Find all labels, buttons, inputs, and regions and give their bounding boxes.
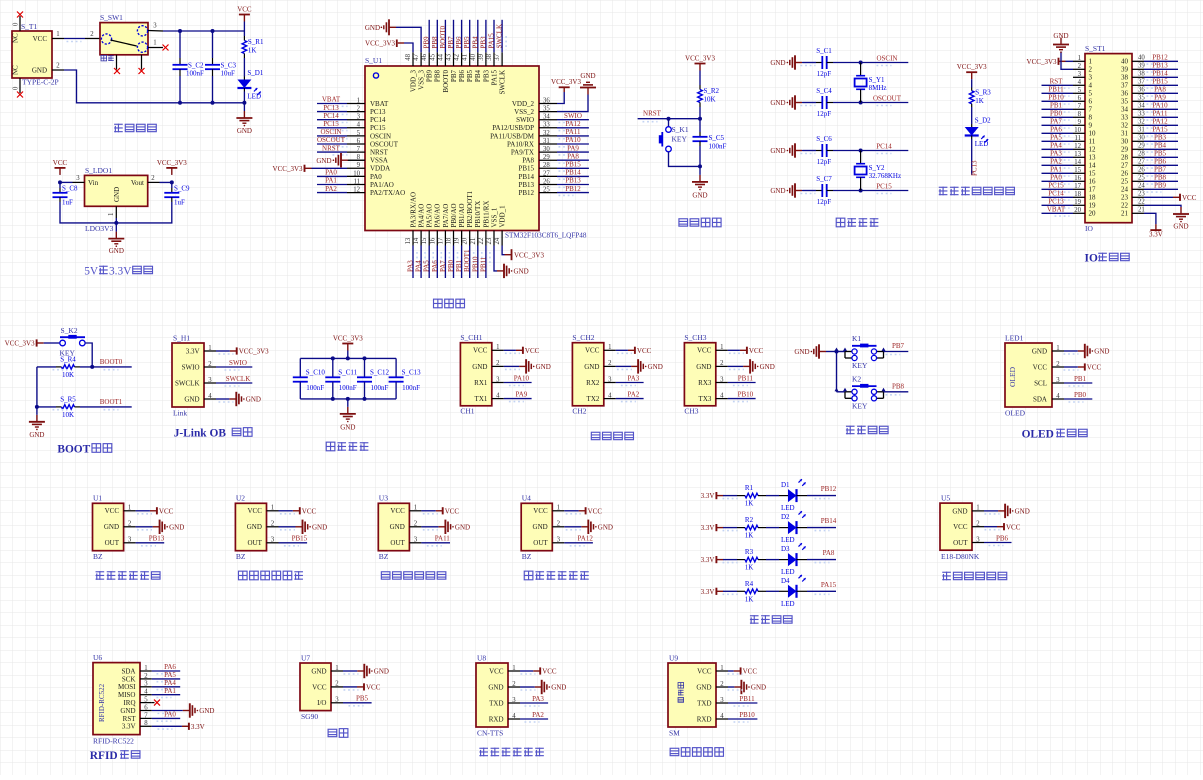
svg-text:NRST: NRST: [370, 149, 389, 157]
svg-text:4: 4: [1078, 79, 1082, 86]
svg-text:PB6: PB6: [996, 534, 1009, 542]
svg-text:2: 2: [335, 681, 339, 688]
svg-text:12: 12: [1074, 143, 1081, 150]
svg-text:PB1/AO: PB1/AO: [458, 203, 466, 227]
svg-text:PB15: PB15: [518, 165, 534, 173]
svg-text:2: 2: [976, 521, 980, 528]
svg-text:PB14: PB14: [821, 517, 837, 525]
svg-text:PA9: PA9: [515, 390, 527, 398]
svg-text:31: 31: [543, 138, 550, 145]
svg-text:36: 36: [1121, 90, 1129, 98]
svg-text:OUT: OUT: [105, 539, 120, 547]
svg-text:PA2: PA2: [325, 185, 337, 193]
svg-text:OSCIN: OSCIN: [320, 128, 341, 136]
svg-text:GND: GND: [29, 431, 44, 439]
svg-text:SDA: SDA: [121, 667, 135, 675]
svg-text:4: 4: [144, 689, 148, 696]
svg-text:PB14: PB14: [518, 173, 534, 181]
svg-text:29: 29: [543, 154, 550, 161]
svg-text:PA6: PA6: [164, 663, 176, 671]
svg-text:OUT: OUT: [533, 539, 548, 547]
svg-text:VCC_3V3: VCC_3V3: [333, 335, 363, 343]
svg-text:GND: GND: [1094, 348, 1109, 356]
svg-text:PA1: PA1: [1050, 166, 1062, 174]
svg-text:TX2: TX2: [587, 395, 600, 403]
svg-text:16: 16: [1089, 178, 1097, 186]
svg-text:4: 4: [496, 392, 500, 399]
svg-text:GND: GND: [1032, 347, 1047, 355]
svg-text:GND: GND: [648, 363, 663, 371]
svg-text:PB11: PB11: [479, 256, 487, 272]
svg-text:S_Y2: S_Y2: [869, 164, 885, 172]
svg-text:S_C1: S_C1: [816, 47, 832, 55]
svg-text:VCC: VCC: [743, 668, 758, 676]
svg-text:VCC_3V3: VCC_3V3: [685, 55, 715, 63]
svg-text:3: 3: [1089, 74, 1093, 82]
svg-text:38: 38: [486, 53, 493, 60]
svg-text:NRST: NRST: [322, 144, 341, 152]
svg-text:6: 6: [1078, 95, 1082, 102]
svg-text:1uF: 1uF: [174, 199, 185, 207]
svg-text:VCC: VCC: [637, 347, 652, 355]
svg-text:7: 7: [1078, 103, 1082, 110]
svg-text:5V: 5V: [84, 266, 99, 278]
svg-text:2: 2: [56, 63, 60, 70]
svg-text:PB13: PB13: [518, 181, 534, 189]
svg-text:PC15: PC15: [323, 120, 339, 128]
svg-text:GND: GND: [598, 523, 613, 531]
svg-text:34: 34: [1121, 106, 1129, 114]
svg-text:PB9: PB9: [423, 36, 431, 49]
svg-text:PA0: PA0: [370, 173, 382, 181]
svg-text:PA5/AO: PA5/AO: [426, 204, 434, 228]
svg-text:100nF: 100nF: [186, 70, 204, 78]
svg-text:D1: D1: [781, 481, 790, 489]
svg-text:GND: GND: [316, 157, 331, 165]
svg-text:S_C4: S_C4: [816, 87, 832, 95]
svg-text:20: 20: [462, 237, 469, 244]
svg-text:PB15: PB15: [565, 161, 581, 169]
svg-text:PB4: PB4: [474, 70, 482, 83]
svg-text:PA3: PA3: [407, 260, 415, 272]
svg-text:0: 0: [13, 86, 20, 90]
svg-text:12: 12: [1089, 146, 1097, 154]
svg-text:GND: GND: [580, 72, 595, 80]
svg-text:PA12: PA12: [578, 535, 594, 543]
svg-text:PA11: PA11: [435, 535, 451, 543]
svg-text:2: 2: [496, 360, 500, 367]
svg-text:PA0: PA0: [1050, 174, 1062, 182]
svg-text:VCC_3V3: VCC_3V3: [551, 78, 581, 86]
svg-text:PB1: PB1: [1074, 375, 1087, 383]
svg-text:GND: GND: [536, 363, 551, 371]
svg-text:LED: LED: [247, 93, 261, 101]
svg-text:PA6: PA6: [1050, 126, 1062, 134]
svg-text:1: 1: [56, 31, 59, 38]
svg-text:PA6/AO: PA6/AO: [434, 204, 442, 228]
svg-text:47: 47: [413, 53, 420, 60]
svg-text:25: 25: [543, 187, 550, 194]
svg-text:16: 16: [429, 237, 436, 244]
svg-text:LDO3V3: LDO3V3: [85, 224, 114, 233]
svg-text:22: 22: [1121, 202, 1129, 210]
svg-text:37: 37: [494, 53, 501, 60]
svg-text:11: 11: [353, 178, 360, 185]
svg-text:100nF: 100nF: [306, 384, 324, 392]
svg-text:OUT: OUT: [953, 539, 968, 547]
svg-text:PB8: PB8: [434, 70, 442, 83]
svg-text:8: 8: [1078, 111, 1082, 118]
svg-text:R4: R4: [745, 580, 754, 588]
svg-text:SWIO: SWIO: [516, 116, 534, 124]
svg-text:PA12: PA12: [1152, 118, 1168, 126]
svg-text:I/O: I/O: [317, 699, 326, 707]
svg-text:PB10: PB10: [471, 256, 479, 272]
svg-text:PA8: PA8: [1154, 86, 1166, 94]
svg-text:32: 32: [543, 130, 550, 137]
svg-text:9: 9: [1089, 122, 1093, 130]
svg-text:S_U1: S_U1: [365, 56, 382, 65]
svg-text:S_CH3: S_CH3: [684, 333, 706, 342]
svg-text:PB7: PB7: [450, 70, 458, 83]
svg-text:38: 38: [1121, 74, 1129, 82]
svg-text:PA11/USB/DM: PA11/USB/DM: [490, 132, 535, 140]
svg-text:10uF: 10uF: [221, 70, 236, 78]
svg-text:1K: 1K: [975, 97, 984, 105]
svg-text:GND: GND: [455, 523, 470, 531]
svg-text:K1: K1: [852, 334, 861, 343]
svg-text:GND: GND: [365, 24, 380, 32]
svg-text:VCC: VCC: [585, 347, 600, 355]
svg-text:2: 2: [512, 681, 516, 688]
svg-text:BZ: BZ: [93, 552, 103, 561]
svg-text:PA7/AO: PA7/AO: [442, 204, 450, 228]
svg-text:GND: GND: [390, 523, 405, 531]
svg-text:12pF: 12pF: [817, 70, 832, 78]
svg-text:10: 10: [1074, 127, 1081, 134]
svg-text:PB12: PB12: [518, 189, 534, 197]
svg-text:R3: R3: [745, 548, 754, 556]
svg-text:18: 18: [1089, 194, 1097, 202]
svg-text:VDD_1: VDD_1: [499, 205, 507, 228]
svg-text:GND: GND: [770, 59, 785, 67]
svg-text:S_ST1: S_ST1: [1085, 44, 1106, 53]
svg-text:36: 36: [543, 97, 550, 104]
svg-text:PA11: PA11: [1152, 110, 1168, 118]
svg-text:RX2: RX2: [586, 379, 600, 387]
svg-text:VBAT: VBAT: [322, 96, 341, 104]
svg-text:1: 1: [144, 665, 147, 672]
svg-text:PA15: PA15: [821, 581, 837, 589]
svg-text:GND: GND: [952, 507, 967, 515]
svg-text:RXD: RXD: [697, 715, 712, 723]
svg-text:PB11: PB11: [738, 374, 754, 382]
svg-text:PB15: PB15: [292, 535, 308, 543]
svg-text:1: 1: [720, 665, 723, 672]
svg-text:GND: GND: [1015, 508, 1030, 516]
svg-text:R2: R2: [745, 516, 754, 524]
svg-text:OLED: OLED: [1022, 429, 1054, 441]
svg-text:VCC_3V3: VCC_3V3: [365, 40, 395, 48]
svg-text:PB5: PB5: [356, 695, 369, 703]
svg-text:PB3: PB3: [479, 36, 487, 49]
svg-text:RFID-RC522: RFID-RC522: [98, 683, 106, 722]
svg-text:18: 18: [1074, 191, 1081, 198]
svg-text:4: 4: [608, 392, 612, 399]
svg-text:PA2: PA2: [1050, 158, 1062, 166]
svg-text:PB5: PB5: [463, 36, 471, 49]
svg-text:PC13: PC13: [971, 160, 979, 176]
svg-text:TX3: TX3: [699, 395, 712, 403]
svg-text:PA3: PA3: [1050, 150, 1062, 158]
svg-text:BOOT1: BOOT1: [463, 249, 471, 272]
svg-text:41: 41: [462, 54, 469, 61]
svg-text:U2: U2: [236, 494, 245, 503]
svg-text:VCC_3V3: VCC_3V3: [1027, 58, 1057, 66]
svg-text:PB10: PB10: [738, 390, 754, 398]
svg-text:PB9: PB9: [1154, 182, 1167, 190]
svg-text:5: 5: [144, 697, 148, 704]
svg-text:PB0/AO: PB0/AO: [450, 203, 458, 227]
svg-text:VDDA: VDDA: [370, 165, 390, 173]
svg-text:33: 33: [1121, 114, 1129, 122]
svg-text:R1: R1: [745, 484, 754, 492]
svg-text:TXD: TXD: [489, 699, 503, 707]
svg-text:100nF: 100nF: [371, 384, 389, 392]
svg-text:19: 19: [1089, 202, 1097, 210]
svg-text:GND: GND: [760, 363, 775, 371]
svg-text:19: 19: [1074, 199, 1081, 206]
svg-text:3: 3: [496, 376, 500, 383]
svg-text:20: 20: [1074, 207, 1081, 214]
svg-text:S_R5: S_R5: [60, 395, 76, 403]
svg-text:S_C6: S_C6: [816, 135, 832, 143]
svg-text:BOOT: BOOT: [57, 444, 90, 456]
svg-text:PC15: PC15: [1048, 182, 1064, 190]
svg-text:SCL: SCL: [1034, 379, 1047, 387]
svg-text:PB10/TX: PB10/TX: [474, 201, 482, 228]
svg-text:PB1: PB1: [1050, 102, 1063, 110]
svg-text:3: 3: [335, 697, 339, 704]
svg-text:S_C13: S_C13: [402, 369, 422, 377]
svg-text:OSCOUT: OSCOUT: [873, 94, 902, 102]
svg-text:Link: Link: [173, 409, 187, 418]
svg-text:GND: GND: [551, 684, 566, 692]
svg-text:2: 2: [271, 521, 275, 528]
svg-text:MOSI: MOSI: [118, 683, 136, 691]
svg-text:U3: U3: [379, 494, 388, 503]
svg-text:6: 6: [1089, 98, 1093, 106]
svg-text:1K: 1K: [745, 564, 754, 572]
svg-text:28: 28: [1121, 154, 1129, 162]
svg-text:PA10: PA10: [514, 374, 530, 382]
svg-text:25: 25: [1121, 178, 1129, 186]
svg-text:1: 1: [512, 665, 515, 672]
svg-text:PA6: PA6: [431, 260, 439, 272]
svg-text:VCC: VCC: [1033, 363, 1048, 371]
svg-text:PB14: PB14: [565, 169, 581, 177]
svg-text:31: 31: [1138, 127, 1145, 134]
svg-text:S_C3: S_C3: [221, 62, 237, 70]
svg-text:3: 3: [208, 377, 212, 384]
svg-text:21: 21: [1121, 210, 1129, 218]
svg-text:GND: GND: [770, 99, 785, 107]
svg-text:RST: RST: [1050, 78, 1064, 86]
svg-text:5: 5: [1078, 87, 1082, 94]
svg-text:IRQ: IRQ: [123, 699, 135, 707]
svg-text:PB13: PB13: [565, 177, 581, 185]
svg-text:VCC: VCC: [542, 668, 557, 676]
svg-text:9: 9: [1078, 119, 1082, 126]
svg-text:S_C7: S_C7: [816, 175, 832, 183]
svg-text:GND: GND: [696, 363, 711, 371]
svg-text:VCC: VCC: [525, 347, 540, 355]
svg-text:GND: GND: [113, 187, 121, 202]
svg-text:1: 1: [414, 505, 417, 512]
svg-text:29: 29: [1121, 146, 1129, 154]
svg-text:3.3V: 3.3V: [701, 556, 715, 564]
svg-text:VCC: VCC: [588, 507, 603, 515]
svg-text:J-Link OB: J-Link OB: [174, 428, 227, 440]
svg-text:21: 21: [1138, 207, 1145, 214]
svg-text:2: 2: [90, 31, 94, 38]
svg-text:SCK: SCK: [122, 675, 136, 683]
svg-text:Vin: Vin: [88, 179, 99, 187]
svg-text:SWCLK: SWCLK: [226, 375, 251, 383]
svg-text:PA7: PA7: [1050, 118, 1062, 126]
svg-text:S_C11: S_C11: [338, 369, 357, 377]
svg-text:MISO: MISO: [118, 691, 136, 699]
svg-text:VCC: VCC: [302, 507, 317, 515]
svg-text:PA4/AO: PA4/AO: [418, 204, 426, 228]
svg-text:17: 17: [437, 237, 444, 244]
svg-text:1: 1: [208, 345, 211, 352]
svg-text:PC14: PC14: [876, 142, 892, 150]
svg-text:PC13: PC13: [370, 108, 386, 116]
svg-text:3: 3: [128, 537, 132, 544]
svg-text:S_D2: S_D2: [975, 117, 991, 125]
svg-text:15: 15: [1089, 170, 1097, 178]
svg-text:S_H1: S_H1: [173, 334, 190, 343]
svg-text:CH3: CH3: [684, 407, 698, 416]
svg-text:OSCIN: OSCIN: [876, 54, 897, 62]
svg-text:S_R2: S_R2: [704, 87, 720, 95]
svg-text:13: 13: [1074, 151, 1081, 158]
svg-text:30: 30: [1121, 138, 1129, 146]
svg-text:PA15: PA15: [488, 33, 496, 49]
svg-text:3: 3: [357, 114, 361, 121]
svg-text:SG90: SG90: [301, 712, 318, 721]
svg-text:10K: 10K: [62, 411, 74, 419]
svg-text:8: 8: [144, 720, 148, 727]
svg-text:0: 0: [13, 22, 20, 26]
svg-text:27: 27: [543, 170, 550, 177]
svg-text:18: 18: [446, 237, 453, 244]
svg-text:3.3V: 3.3V: [701, 588, 715, 596]
svg-text:GND: GND: [104, 523, 119, 531]
svg-text:U4: U4: [522, 494, 531, 503]
svg-text:PA1: PA1: [164, 687, 176, 695]
svg-text:S_D1: S_D1: [247, 69, 263, 77]
svg-text:3: 3: [1078, 71, 1082, 78]
svg-text:3: 3: [1056, 377, 1060, 384]
svg-text:SWCLK: SWCLK: [496, 24, 504, 49]
svg-text:PB12: PB12: [1152, 54, 1168, 62]
svg-text:S_CH1: S_CH1: [460, 333, 482, 342]
svg-text:SWIO: SWIO: [229, 359, 247, 367]
svg-text:GND: GND: [312, 523, 327, 531]
svg-text:S_SW1: S_SW1: [100, 13, 123, 22]
svg-text:GND: GND: [311, 667, 326, 675]
svg-text:LED: LED: [781, 536, 795, 544]
svg-text:8MHz: 8MHz: [869, 84, 887, 92]
svg-text:23: 23: [1121, 194, 1129, 202]
svg-text:PA5: PA5: [1050, 134, 1062, 142]
svg-text:11: 11: [1089, 138, 1096, 146]
svg-text:5: 5: [1089, 90, 1093, 98]
svg-text:PA15: PA15: [1152, 126, 1168, 134]
svg-text:6: 6: [144, 704, 148, 711]
svg-text:21: 21: [470, 238, 477, 245]
svg-text:GND: GND: [374, 668, 389, 676]
svg-text:BZ: BZ: [236, 552, 246, 561]
svg-text:VCC: VCC: [312, 683, 327, 691]
svg-text:GND: GND: [770, 147, 785, 155]
svg-text:STM32F103C8T6_LQFP48: STM32F103C8T6_LQFP48: [505, 232, 587, 240]
svg-text:PA4: PA4: [1050, 142, 1062, 150]
svg-text:VCC: VCC: [366, 684, 381, 692]
svg-text:PA2/TX/AO: PA2/TX/AO: [370, 189, 405, 197]
svg-text:GND: GND: [696, 683, 711, 691]
svg-text:D4: D4: [781, 577, 790, 585]
svg-text:32.768KHz: 32.768KHz: [869, 172, 901, 180]
svg-text:PA10: PA10: [565, 136, 581, 144]
svg-text:9: 9: [357, 162, 361, 169]
svg-text:30: 30: [543, 146, 550, 153]
svg-text:GND: GND: [584, 363, 599, 371]
svg-text:BOOT0: BOOT0: [100, 358, 123, 366]
svg-text:1: 1: [1056, 345, 1059, 352]
svg-text:VCC: VCC: [390, 507, 405, 515]
svg-text:VCC_3V3: VCC_3V3: [957, 63, 987, 71]
svg-text:PA5: PA5: [164, 671, 176, 679]
svg-text:10K: 10K: [704, 96, 716, 104]
svg-text:SWCLK: SWCLK: [175, 379, 200, 387]
svg-text:28: 28: [543, 162, 550, 169]
svg-text:GND: GND: [184, 395, 199, 403]
svg-text:U9: U9: [669, 654, 678, 663]
svg-text:PB0: PB0: [1050, 110, 1063, 118]
svg-text:23: 23: [486, 237, 493, 244]
svg-text:1K: 1K: [248, 47, 257, 55]
svg-text:20: 20: [1089, 210, 1097, 218]
svg-text:VCC: VCC: [697, 667, 712, 675]
svg-text:VDD_2: VDD_2: [512, 100, 535, 108]
svg-text:PB7: PB7: [892, 342, 905, 350]
svg-text:1: 1: [1089, 58, 1093, 66]
svg-text:GND: GND: [472, 363, 487, 371]
svg-text:PA2: PA2: [627, 390, 639, 398]
svg-text:10K: 10K: [62, 371, 74, 379]
svg-text:48: 48: [405, 53, 412, 60]
svg-text:PA8: PA8: [567, 152, 579, 160]
svg-text:PB1: PB1: [455, 259, 463, 272]
svg-text:14: 14: [1089, 162, 1097, 170]
svg-text:1: 1: [608, 344, 611, 351]
svg-text:32: 32: [1121, 122, 1129, 130]
svg-text:TYPE-C-2P: TYPE-C-2P: [22, 78, 59, 87]
svg-text:S_Y1: S_Y1: [869, 76, 885, 84]
